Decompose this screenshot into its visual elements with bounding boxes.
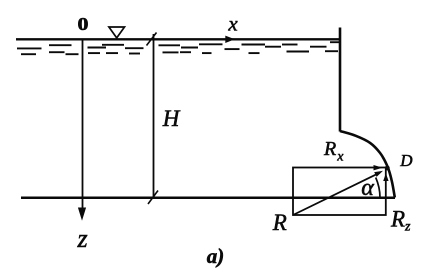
svg-text:x: x <box>336 150 344 165</box>
svg-text:R: R <box>390 207 405 232</box>
svg-text:0: 0 <box>78 15 89 35</box>
svg-text:D: D <box>399 151 413 170</box>
svg-text:z: z <box>404 219 411 234</box>
svg-text:a): a) <box>207 244 225 268</box>
svg-text:z: z <box>76 224 87 253</box>
svg-text:R: R <box>272 210 287 235</box>
svg-text:x: x <box>227 11 238 35</box>
svg-text:H: H <box>162 106 181 131</box>
svg-text:α: α <box>361 175 374 201</box>
svg-text:R: R <box>323 138 336 160</box>
